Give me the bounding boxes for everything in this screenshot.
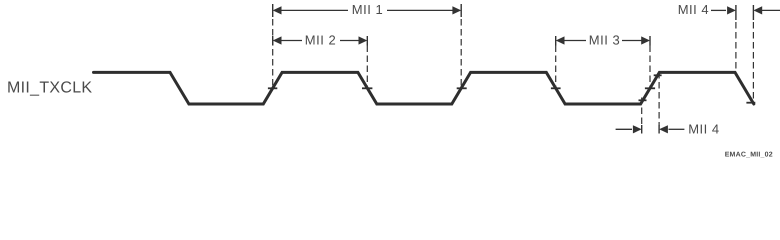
dashed line at rise3 end x=659.1 bbox=[658, 72, 660, 126]
arrowhead MII1 left bbox=[273, 6, 282, 14]
terminator bar MII4 top left bbox=[735, 5, 737, 20]
tick rise3 bottom corner bbox=[639, 99, 647, 101]
dimension MII4 top right line bbox=[762, 9, 780, 11]
terminator bar MII1 left bbox=[272, 4, 274, 17]
dashed line at rise3 start x=641.7 bbox=[641, 98, 643, 126]
svg-text:EMAC_MII_02: EMAC_MII_02 bbox=[725, 151, 773, 158]
dashed line at rise2 midpoint x=461.2 bbox=[460, 19, 462, 88]
terminator bar MII4 bottom left bbox=[641, 125, 643, 134]
arrowhead MII2 right bbox=[359, 36, 368, 44]
terminator bar MII1 right bbox=[460, 4, 462, 17]
tick rise3 50% bbox=[645, 87, 655, 89]
wire MII_TXCLK waveform bbox=[94, 72, 754, 104]
svg-text:MII 4: MII 4 bbox=[678, 2, 709, 17]
dimension MII4 top left line bbox=[711, 9, 726, 11]
dashed line at rise3 midpoint x=650 bbox=[649, 46, 651, 88]
arrowhead MII2 left bbox=[273, 36, 282, 44]
dimension MII1 line bbox=[281, 9, 348, 11]
dashed line at fall3 midpoint x=555.7 bbox=[555, 46, 557, 88]
terminator bar MII4 bottom right bbox=[658, 125, 660, 134]
svg-text:MII 4: MII 4 bbox=[688, 121, 719, 136]
tick fall4 bottom corner bbox=[746, 102, 755, 104]
terminator bar MII2 right bbox=[366, 36, 368, 46]
dimension MII4 bottom right line bbox=[669, 128, 685, 130]
svg-text:MII 1: MII 1 bbox=[352, 2, 383, 17]
svg-text:MII 3: MII 3 bbox=[589, 32, 620, 47]
arrowhead MII4 top left bbox=[727, 6, 736, 14]
dashed line at fall2 midpoint x=367.3 bbox=[366, 46, 368, 88]
arrowhead MII1 right bbox=[452, 6, 461, 14]
arrowhead MII3 right bbox=[641, 36, 650, 44]
tick rise2 50% bbox=[457, 87, 467, 89]
svg-text:MII_TXCLK: MII_TXCLK bbox=[7, 79, 92, 96]
tick rise3 top corner bbox=[654, 74, 662, 76]
arrowhead MII4 bottom left bbox=[633, 125, 642, 133]
dashed line at fall4 start x=735.9 bbox=[735, 22, 737, 71]
tick fall3 50% bbox=[551, 87, 561, 89]
arrowhead MII3 left bbox=[556, 36, 565, 44]
terminator bar MII4 top right bbox=[752, 5, 754, 20]
dimension MII3 line bbox=[564, 40, 586, 42]
tick rise1 50% bbox=[268, 87, 277, 89]
tick fall2 50% bbox=[362, 87, 372, 89]
terminator bar MII2 left bbox=[272, 36, 274, 46]
terminator bar MII3 left bbox=[555, 36, 557, 46]
dimension MII4 bottom left line bbox=[616, 128, 632, 130]
arrowhead MII4 top right bbox=[753, 6, 762, 14]
dashed line at rise1 midpoint x=272.7 bbox=[272, 19, 274, 88]
terminator bar MII3 right bbox=[649, 36, 651, 46]
dashed line at fall4 end x=753.4 bbox=[752, 22, 754, 101]
svg-text:MII 2: MII 2 bbox=[305, 32, 336, 47]
dimension MII2 line bbox=[281, 40, 302, 42]
arrowhead MII4 bottom right bbox=[659, 125, 668, 133]
